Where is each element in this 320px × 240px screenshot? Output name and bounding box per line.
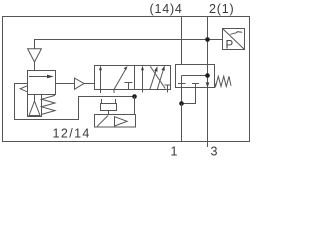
solenoid coil Z1 xyxy=(101,104,117,111)
wire stem port bar1 down xyxy=(181,76,183,104)
valve port stub 2a xyxy=(142,90,144,93)
wire pilot rail top xyxy=(35,40,223,49)
wire regulator to amplifier xyxy=(56,83,75,85)
wire triangle to regulator xyxy=(34,62,36,71)
svg-text:P: P xyxy=(226,40,234,52)
valve V1 body xyxy=(95,66,171,90)
valve port stub 2b xyxy=(167,90,169,93)
valve box1 up arrow xyxy=(100,67,102,90)
valve box2 throttle arrow a xyxy=(150,69,157,89)
valve box2 blocked port T xyxy=(165,84,171,86)
spring S1 under regulator xyxy=(42,95,56,114)
node junction rail / port 2 xyxy=(205,37,210,42)
poppet triangle xyxy=(34,95,36,102)
wire pilot valve to junction xyxy=(134,97,136,115)
valve box1 blocked port T xyxy=(125,82,133,84)
enclosure frame xyxy=(3,17,250,142)
wire port 3 stub below frame xyxy=(207,142,209,148)
valve box2 throttle arrow b xyxy=(157,69,164,90)
wire port 2(1)/3 vertical xyxy=(207,17,209,142)
pilot section box xyxy=(176,65,215,88)
valve box1 diagonal arrow xyxy=(114,67,127,89)
amplifier triangle A1 xyxy=(75,78,85,89)
valve port stub 1b xyxy=(113,90,115,94)
valve position divider xyxy=(134,66,136,90)
svg-text:12/14: 12/14 xyxy=(53,126,91,140)
wire port 4 vertical xyxy=(181,17,183,65)
pilot section internal wire xyxy=(182,75,208,77)
wire stem port bar2 down xyxy=(182,84,196,104)
pilot valve solenoid diagonal xyxy=(97,116,108,127)
wire port 1 vertical xyxy=(181,104,183,142)
regulator pilot triangle xyxy=(20,86,27,92)
valve box2 up arrow xyxy=(142,67,144,90)
valve port stub 1a xyxy=(100,90,102,94)
node junction port 1 xyxy=(179,101,184,106)
wire amplifier to valve xyxy=(84,83,95,85)
svg-text:1: 1 xyxy=(171,145,178,159)
wire coil to pilot valve xyxy=(108,111,110,115)
exhaust triangle E1 xyxy=(28,49,42,62)
wire pilot loop 12/14 xyxy=(15,84,135,120)
svg-text:2(1): 2(1) xyxy=(209,2,234,16)
poppet valve box xyxy=(28,95,42,117)
pilot section down arrow xyxy=(206,82,210,88)
pressure switch PS1 body xyxy=(223,29,245,50)
regulator R1 body xyxy=(28,71,56,95)
pilot section port bar 1 xyxy=(178,83,186,85)
pressure switch contact xyxy=(230,32,242,35)
regulator flow arrow xyxy=(29,76,49,78)
node junction internal / port 2 xyxy=(205,73,210,78)
svg-text:3: 3 xyxy=(211,145,218,159)
pilot valve box xyxy=(95,115,136,128)
spring S2 return xyxy=(215,76,232,86)
node junction pilot / valve drop xyxy=(132,94,137,99)
svg-text:(14)4: (14)4 xyxy=(150,2,183,16)
pilot section port bar 2 xyxy=(192,83,199,85)
valve box2 cross flow line xyxy=(150,66,165,88)
pilot valve amplifier triangle xyxy=(115,117,128,126)
